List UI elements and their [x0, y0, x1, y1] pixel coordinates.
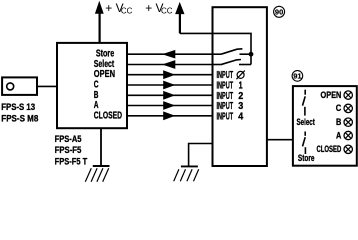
- svg-text:INPUT: INPUT: [217, 111, 234, 122]
- lamp CLOSED: [344, 145, 352, 153]
- label + Vcc 1: [105, 1, 132, 16]
- arrowhead C (right): [163, 81, 175, 90]
- lamp OPEN: [344, 91, 352, 99]
- ground under amplifier: [85, 129, 109, 182]
- svg-text:A: A: [336, 130, 342, 140]
- junction dot switch common: [249, 52, 254, 57]
- wire Select line: [127, 64, 213, 66]
- switch Store (box 90): [213, 49, 252, 54]
- wire Store line: [127, 53, 213, 55]
- lamp C: [344, 104, 352, 112]
- arrowhead Store (left): [162, 50, 175, 59]
- svg-text:91: 91: [293, 72, 301, 81]
- circled label 90: [274, 6, 285, 17]
- switch Select (box 90): [213, 60, 252, 65]
- svg-text:4: 4: [238, 111, 243, 122]
- svg-text:FPS-F5 T: FPS-F5 T: [55, 157, 88, 168]
- svg-text:CC: CC: [161, 7, 173, 16]
- arrowhead OPEN (right): [163, 70, 175, 79]
- svg-text:FPS-S M8: FPS-S M8: [1, 114, 38, 124]
- connector FPS-S sensor box: [2, 77, 37, 95]
- lamp B: [344, 118, 352, 126]
- svg-text:CLOSED: CLOSED: [317, 144, 342, 154]
- svg-text:90: 90: [275, 7, 283, 16]
- console box 91: [293, 86, 357, 166]
- wire CLOSED line: [127, 115, 213, 117]
- svg-text:FPS-S 13: FPS-S 13: [1, 102, 35, 112]
- svg-text:C: C: [336, 103, 342, 113]
- wire C line: [127, 84, 213, 86]
- wire Vcc 2 to switch common: [180, 33, 251, 64]
- label INPUT 0: [217, 70, 245, 81]
- wire box 90 to box 91: [267, 139, 293, 141]
- switch Select (box 91): [303, 90, 306, 116]
- svg-text:OPEN: OPEN: [321, 90, 342, 100]
- wire OPEN line: [127, 74, 213, 76]
- ground under box 90: [174, 166, 199, 181]
- switch Store (box 91): [303, 132, 306, 155]
- lamp A: [344, 131, 352, 139]
- label + Vcc 2: [145, 1, 173, 16]
- svg-text:CLOSED: CLOSED: [94, 110, 122, 121]
- amplifier box FPS-A5: [57, 43, 127, 128]
- programmable controller box 90: [213, 7, 267, 166]
- wire box 90 to ground: [189, 144, 213, 168]
- circled label 91: [292, 71, 303, 82]
- svg-text:FPS-F5: FPS-F5: [55, 145, 82, 156]
- wire B line: [127, 94, 213, 96]
- arrowhead CLOSED (right): [163, 111, 175, 120]
- power +Vcc arrow 2: [175, 2, 184, 34]
- arrowhead B (right): [163, 91, 175, 100]
- svg-text:CC: CC: [121, 7, 133, 16]
- svg-text:B: B: [336, 117, 342, 127]
- arrowhead Select (left): [162, 60, 175, 69]
- power +Vcc arrow 1: [95, 1, 104, 43]
- svg-text:Select: Select: [297, 117, 315, 127]
- svg-text:FPS-A5: FPS-A5: [55, 134, 82, 145]
- wire sensor to amplifier: [37, 85, 57, 87]
- arrowhead A (right): [163, 101, 175, 110]
- wire A line: [127, 105, 213, 107]
- svg-text:Store: Store: [298, 153, 315, 163]
